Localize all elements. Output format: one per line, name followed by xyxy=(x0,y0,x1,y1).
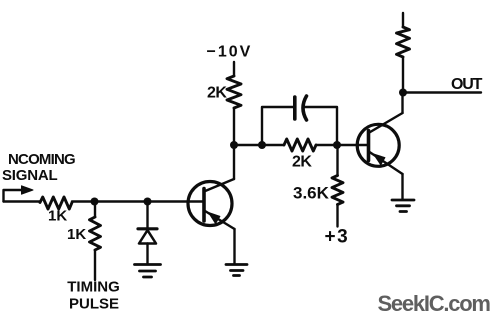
wire node E to Q2 base xyxy=(337,144,369,146)
wire node C to node D xyxy=(234,144,262,146)
wire R1 to node A xyxy=(72,200,95,202)
diode D1 xyxy=(138,202,157,265)
ground (below Q1 emitter) xyxy=(226,265,247,276)
node E (junction dot) xyxy=(333,141,341,149)
node TIMING PULSE label xyxy=(67,279,120,313)
ground (below diode D1) xyxy=(135,265,161,278)
node F (junction dot) xyxy=(399,89,407,97)
wire node A to node B xyxy=(95,200,148,202)
transistor Q2 (PNP) xyxy=(357,113,402,174)
svg-text:2K: 2K xyxy=(292,154,312,171)
node B (junction dot) xyxy=(144,198,152,206)
svg-text:2K: 2K xyxy=(207,85,227,102)
resistor R1 1K (horizontal) xyxy=(40,197,72,225)
svg-text:SIGNAL: SIGNAL xyxy=(2,167,58,184)
resistor R3 2K (vertical) xyxy=(207,76,241,108)
node INCOMING SIGNAL label xyxy=(2,151,75,184)
svg-text:−10V: −10V xyxy=(207,44,253,61)
node A (junction dot) xyxy=(91,198,99,206)
svg-text:1K: 1K xyxy=(48,208,67,225)
wire Q1 collector up to node C xyxy=(233,145,235,179)
resistor R2 1K (vertical, timing pulse) xyxy=(67,202,101,281)
wire node D to R4 and R4 to node E xyxy=(262,144,337,146)
svg-text:OUT: OUT xyxy=(451,76,483,93)
wire node F to OUT xyxy=(403,91,481,93)
input arrow xyxy=(4,186,34,202)
wire Q2 collector up to node F xyxy=(401,93,403,114)
ground (below Q2 emitter) xyxy=(392,200,414,212)
capacitor C1 plates xyxy=(295,96,307,120)
resistor R4 2K (horizontal) xyxy=(284,139,316,171)
wire R3 to node C xyxy=(233,108,235,145)
wire input to R1 xyxy=(4,200,41,202)
svg-text:SeekIC.com: SeekIC.com xyxy=(378,291,491,316)
resistor R5 3.6K (vertical) xyxy=(293,145,343,227)
transistor Q1 (PNP) xyxy=(188,179,235,229)
wire Q2 emitter down xyxy=(401,174,403,200)
wire -10V to R3 xyxy=(233,62,235,76)
svg-text:+3: +3 xyxy=(325,227,350,248)
svg-text:NCOMING: NCOMING xyxy=(8,151,75,168)
resistor R6 (vertical, top right) xyxy=(397,13,410,93)
wire node B to Q1 base xyxy=(148,200,205,202)
wire Q1 emitter down xyxy=(233,229,235,264)
svg-text:PULSE: PULSE xyxy=(69,296,119,313)
capacitor C1 branch (right riser) xyxy=(304,107,338,145)
node C (junction dot) xyxy=(230,141,238,149)
node D (junction dot) xyxy=(258,141,266,149)
capacitor C1 branch (left riser) xyxy=(262,107,294,145)
svg-text:TIMING: TIMING xyxy=(67,279,120,296)
svg-text:3.6K: 3.6K xyxy=(293,184,330,203)
svg-text:1K: 1K xyxy=(67,226,86,243)
